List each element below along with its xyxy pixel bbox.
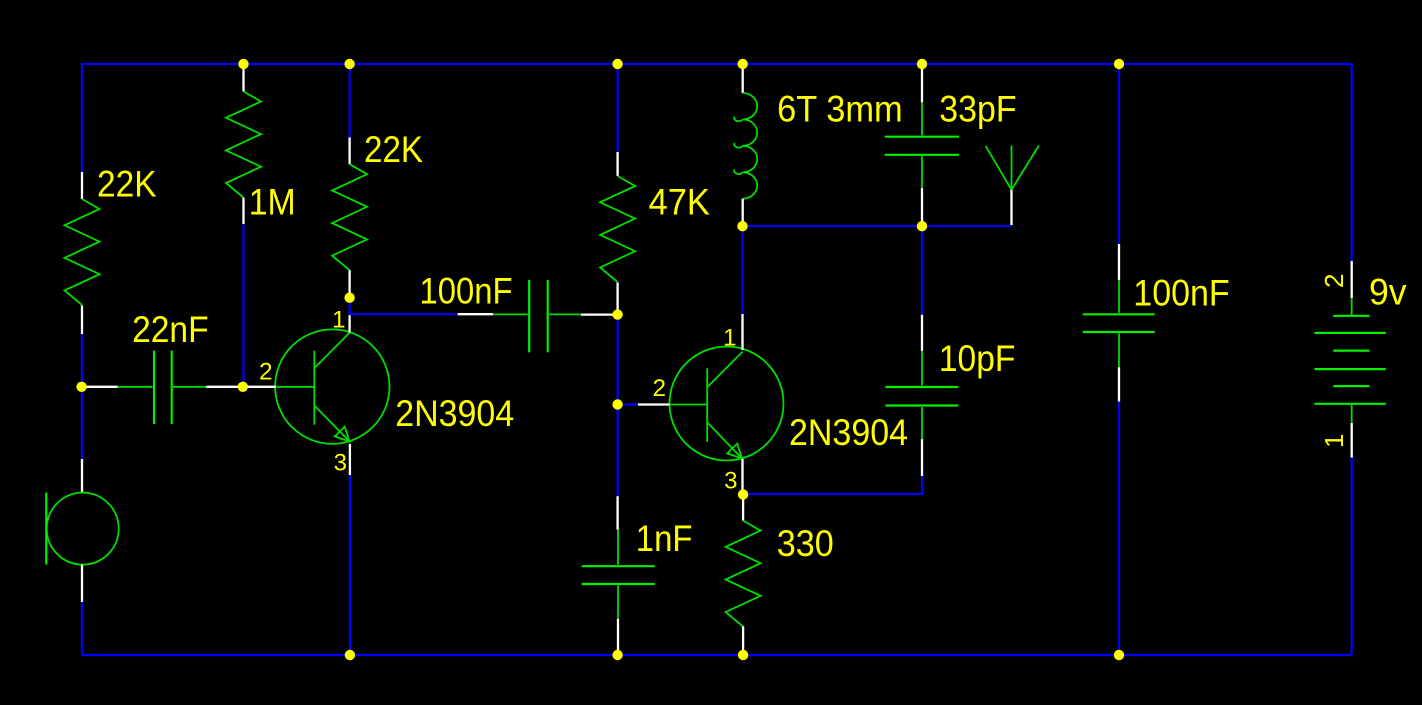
junction 47K bottom node — [612, 309, 622, 319]
resistor 22K (Q1 collector) — [332, 64, 367, 298]
junction top inductor — [738, 59, 748, 69]
label 2N3904 Q2 — [789, 412, 908, 453]
svg-text:33pF: 33pF — [939, 89, 1016, 130]
pin 1 Q1 — [332, 307, 345, 334]
svg-text:10pF: 10pF — [939, 338, 1016, 379]
pin 3 Q1 — [334, 450, 347, 477]
wire Q2 collector up — [741, 226, 743, 314]
junction mic node — [76, 382, 86, 392]
junction bottom 100nF — [1114, 650, 1124, 660]
wire Q1 collector node — [350, 298, 458, 315]
transistor Q2 2N3904 — [637, 314, 784, 490]
svg-text:6T 3mm: 6T 3mm — [777, 89, 903, 130]
label 10pF — [939, 338, 1016, 379]
wire top rail — [82, 64, 1352, 174]
junction top 1M — [238, 59, 248, 69]
junction top 33pF — [917, 59, 927, 69]
label 33pF — [939, 89, 1016, 130]
inductor 6T 3mm — [734, 66, 757, 226]
wire 10pF to Q2 emitter — [743, 476, 922, 494]
label 22K second — [364, 129, 423, 170]
junction Q1 collector node — [344, 293, 354, 303]
junction bottom 330 — [738, 650, 748, 660]
junction Q2 emitter node — [738, 489, 748, 499]
svg-text:330: 330 — [777, 523, 834, 564]
capacitor 1nF — [582, 496, 655, 653]
svg-text:2N3904: 2N3904 — [395, 393, 514, 434]
junction Q1 base node — [238, 382, 248, 392]
wire Q2 base spur — [618, 403, 638, 405]
svg-text:1nF: 1nF — [636, 518, 693, 559]
label 100nF decoupling — [1133, 272, 1229, 313]
svg-text:2: 2 — [1319, 274, 1349, 288]
pin 2 Q2 — [653, 375, 666, 402]
capacitor 100nF (coupling) — [458, 280, 615, 353]
label 100nF coupling — [420, 271, 513, 312]
junction Q2 base node — [612, 399, 622, 409]
svg-text:2: 2 — [259, 359, 272, 386]
microphone — [46, 459, 118, 602]
wire mic to bottom — [81, 602, 83, 655]
capacitor 22nF — [82, 351, 243, 425]
label 22K left — [97, 164, 157, 205]
capacitor 10pF — [885, 315, 958, 476]
label 22nF — [132, 309, 209, 350]
svg-text:22nF: 22nF — [132, 309, 209, 350]
label 6T 3mm — [777, 89, 903, 130]
label 1nF — [636, 518, 693, 559]
resistor 1M — [226, 66, 261, 224]
svg-text:1: 1 — [332, 307, 345, 334]
capacitor 100nF (decoupling) — [1083, 64, 1155, 655]
capacitor 33pF — [885, 64, 959, 225]
svg-text:1: 1 — [1319, 434, 1349, 448]
svg-text:2: 2 — [653, 375, 666, 402]
resistor 47K — [600, 64, 635, 311]
pin 1 Q2 — [723, 325, 736, 352]
wire Q1 emitter to bottom — [349, 475, 351, 655]
svg-text:3: 3 — [334, 450, 347, 477]
battery 9v — [1314, 64, 1385, 655]
wire 10pF top — [921, 226, 923, 315]
wire 22K to mic node — [81, 334, 83, 460]
svg-text:3: 3 — [724, 468, 737, 495]
svg-text:100nF: 100nF — [1133, 272, 1229, 313]
junction top 100nF — [1114, 59, 1124, 69]
label 330 — [777, 523, 834, 564]
junction bottom Q1 — [345, 650, 355, 660]
svg-text:1: 1 — [723, 325, 736, 352]
label 1M — [249, 182, 296, 223]
svg-text:9v: 9v — [1369, 271, 1407, 312]
svg-text:22K: 22K — [364, 129, 423, 170]
svg-text:47K: 47K — [649, 181, 711, 222]
resistor 22K (left bias) — [65, 172, 100, 334]
pin 1 battery — [1319, 434, 1349, 448]
junction top 22K — [344, 59, 354, 69]
pin 2 battery — [1319, 274, 1349, 288]
junction bottom 1nF — [612, 650, 622, 660]
resistor 330 — [726, 499, 761, 653]
svg-text:22K: 22K — [97, 164, 157, 205]
pin 2 Q1 — [259, 359, 272, 386]
svg-text:100nF: 100nF — [420, 271, 513, 312]
label 9v — [1369, 271, 1407, 312]
junction top 47K — [612, 59, 622, 69]
antenna — [986, 146, 1039, 225]
pin 3 Q2 — [724, 468, 737, 495]
transistor Q1 2N3904 — [243, 314, 390, 475]
junction tank left — [737, 221, 747, 231]
svg-text:2N3904: 2N3904 — [789, 412, 908, 453]
wire tank rail — [743, 225, 1013, 227]
svg-text:1M: 1M — [249, 182, 296, 223]
wire bottom rail — [82, 654, 1352, 656]
label 2N3904 Q1 — [395, 393, 514, 434]
wire mid column — [616, 311, 618, 496]
label 47K — [649, 181, 711, 222]
junction tank right — [917, 221, 927, 231]
wire 1M to base node — [242, 224, 244, 387]
